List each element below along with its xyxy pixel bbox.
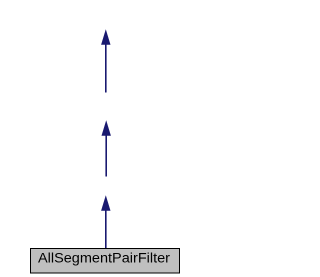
- inheritance arrow 3 (edge into AllSegmentPairFilter node): [101, 195, 110, 248]
- inheritance arrow 2 (middle edge between hidden classes): [102, 120, 111, 176]
- inheritance graph canvas: [0, 0, 213, 277]
- svg-text:AllSegmentPairFilter: AllSegmentPairFilter: [38, 251, 171, 266]
- inheritance arrow 1 (top edge to hidden base class): [101, 29, 110, 92]
- node box AllSegmentPairFilter (current class, grey75 fill, black border): [31, 249, 180, 274]
